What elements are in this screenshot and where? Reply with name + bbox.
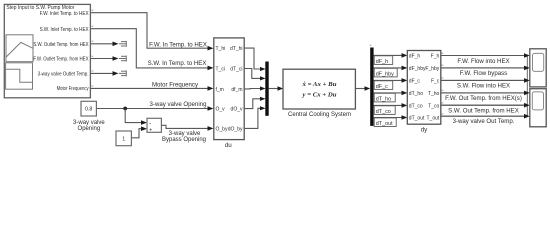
svg-text:dF_c: dF_c [376, 84, 388, 90]
signal label box dF_hby [374, 68, 397, 77]
svg-text:dT_ci: dT_ci [230, 67, 242, 73]
wire: port6 Motor Frequency to du f_m [90, 87, 211, 89]
arrowhead mux port1 [260, 67, 266, 71]
svg-text:dF_h: dF_h [376, 59, 388, 65]
arrowhead scope1 port1 [524, 53, 530, 58]
wire: du df_m to mux port3 [244, 88, 262, 90]
arrowhead into dy port5 [402, 103, 408, 108]
arrowhead into dy port4 [402, 91, 408, 96]
svg-text:T_hi: T_hi [216, 46, 226, 52]
svg-text:F_hby: F_hby [425, 66, 439, 72]
svg-text:≈: ≈ [92, 9, 94, 13]
svg-text:≈: ≈ [92, 84, 94, 88]
signal label box dT_ho [374, 93, 395, 102]
svg-text:dT_co: dT_co [376, 109, 391, 115]
arrowhead into dy port3 [402, 78, 408, 83]
arrowhead terminator 1 [113, 42, 119, 47]
svg-text:dy: dy [421, 126, 428, 133]
wire: port5 to terminator 3 [90, 72, 114, 74]
svg-text:3-way valve Out Temp.: 3-way valve Out Temp. [453, 118, 515, 125]
arrowhead scope2 port3 [524, 114, 530, 119]
arrowhead scope1 port2 [524, 66, 530, 71]
svg-text:≈: ≈ [92, 69, 94, 73]
scope block 1 [530, 49, 546, 87]
svg-text:T_out: T_out [427, 116, 440, 122]
constant block 1 [116, 131, 131, 146]
svg-text:1: 1 [122, 136, 125, 142]
arrowhead into demux [365, 86, 371, 91]
terminator T1 [119, 41, 126, 47]
wire: du dO_by to mux port5 [244, 108, 262, 128]
svg-text:≈: ≈ [442, 51, 444, 55]
arrowhead mux port5 [260, 106, 266, 110]
icon: step signal plot [6, 63, 33, 89]
state-space block: Central Cooling System [283, 69, 355, 109]
terminator T2 [119, 56, 126, 62]
svg-text:F_h: F_h [431, 54, 440, 60]
wire: demux to dy dF_hby [374, 67, 405, 69]
svg-text:T_ci: T_ci [216, 67, 225, 73]
wire: CCS to demux [355, 88, 367, 90]
svg-text:Central Cooling System: Central Cooling System [288, 112, 351, 118]
svg-text:df_m: df_m [231, 87, 242, 93]
svg-text:y = Cx + Du: y = Cx + Du [301, 93, 337, 99]
svg-text:dO_v: dO_v [231, 107, 243, 113]
arrowhead into dy port2 [402, 66, 408, 71]
signal label box dT_out [374, 118, 396, 127]
svg-text:+: + [149, 128, 152, 134]
tiny routing tags [92, 9, 444, 117]
arrowhead into dy port6 [402, 115, 408, 120]
svg-text:dF_c: dF_c [409, 79, 421, 85]
wire: mux to Central Cooling System [268, 88, 280, 90]
output label boxes column [441, 56, 528, 117]
svg-text:F.W. Outlet Temp. from HEX: F.W. Outlet Temp. from HEX [33, 57, 89, 63]
wire: sum to du O_by [161, 125, 211, 128]
svg-text:≈: ≈ [442, 89, 444, 93]
svg-text:≈: ≈ [92, 25, 94, 29]
svg-text:T_co: T_co [428, 104, 439, 110]
svg-text:F.W. Flow into HEX: F.W. Flow into HEX [457, 58, 509, 65]
wire: demux to dy dT_out [374, 117, 405, 119]
svg-text:S.W. In Temp. to HEX: S.W. In Temp. to HEX [148, 60, 207, 67]
wire: dy F_hby to scope1 [441, 67, 527, 69]
svg-text:F.W. In Temp. to HEX: F.W. In Temp. to HEX [149, 41, 207, 48]
signal label box dT_co [374, 106, 395, 115]
mux bar [265, 62, 268, 116]
wire: branch down to sum minus input [125, 109, 143, 123]
svg-text:≈: ≈ [442, 112, 444, 116]
svg-text:≈: ≈ [442, 101, 444, 105]
svg-text:ẋ = Ax + Bu: ẋ = Ax + Bu [301, 82, 337, 88]
arrowhead terminator 3 [113, 71, 119, 76]
svg-text:≈: ≈ [92, 40, 94, 44]
arrowhead into sum minus [141, 120, 147, 125]
wire: port2 to du T_ci [90, 29, 211, 68]
svg-text:dF_hby: dF_hby [376, 71, 394, 77]
terminator T3 [119, 70, 126, 76]
svg-text:0.8: 0.8 [85, 107, 92, 113]
svg-text:T_ho: T_ho [428, 91, 440, 97]
svg-text:F.W. Out Temp. from HEX(s): F.W. Out Temp. from HEX(s) [445, 95, 522, 102]
arrowhead into sum plus [141, 126, 147, 131]
svg-text:f_m: f_m [216, 87, 224, 93]
svg-text:Motor Frequency: Motor Frequency [57, 86, 89, 92]
svg-text:3-way valve Outlet Temp.: 3-way valve Outlet Temp. [38, 72, 89, 78]
block dy (output reconstruction) [407, 51, 441, 125]
svg-text:dT_hi: dT_hi [230, 46, 243, 52]
wire: dy F_h to scope1 [441, 55, 527, 57]
arrowhead into du port2 [208, 66, 214, 71]
wire: du dO_v to mux port4 [244, 99, 262, 109]
svg-text:dT_ho: dT_ho [376, 96, 391, 102]
wire: dy T_co to scope2 [441, 104, 527, 106]
arrowhead into du port3 [208, 86, 214, 91]
svg-text:Motor Frequency: Motor Frequency [152, 82, 199, 89]
svg-text:dT_co: dT_co [409, 104, 423, 110]
wire: port1 to du T_hi [90, 13, 211, 49]
signal label box dF_c [374, 81, 393, 90]
arrowhead scope2 port2 [524, 103, 530, 108]
svg-text:du: du [225, 142, 232, 149]
svg-text:F.W. Inlet Temp. to HEX: F.W. Inlet Temp. to HEX [40, 11, 89, 17]
wire: demux to dy dT_co [374, 104, 405, 106]
arrowhead into du port1 [208, 46, 214, 51]
wire: dy T_out to scope2 [441, 115, 527, 117]
subsystem: Step Input to S.W. Pump Motor [4, 4, 90, 97]
arrowhead scope1 port3 [524, 78, 530, 83]
block du (deviation of inputs) [214, 38, 244, 140]
wire: 1 to sum plus input [132, 129, 144, 138]
sum block [147, 118, 161, 133]
svg-text:S.W. Outlet Temp. from HEX: S.W. Outlet Temp. from HEX [33, 42, 89, 48]
wire: port4 to terminator 2 [90, 58, 114, 60]
svg-text:3-way valve Opening: 3-way valve Opening [150, 101, 207, 108]
wire: demux to dy dT_ho [374, 92, 405, 94]
svg-text:≈: ≈ [92, 54, 94, 58]
arrowhead into du port5 [208, 126, 214, 131]
svg-text:dT_out: dT_out [409, 116, 425, 122]
arrowhead into du port4 [208, 106, 214, 111]
svg-text:Opening: Opening [78, 126, 101, 132]
scope block 2 [530, 89, 546, 127]
demux bar [370, 48, 373, 126]
svg-text:S.W. Flow into HEX: S.W. Flow into HEX [457, 83, 510, 90]
junction node [123, 107, 127, 111]
svg-text:≈: ≈ [442, 64, 444, 68]
arrowhead into dy port1 [402, 53, 408, 58]
arrowhead scope2 port1 [524, 91, 530, 96]
svg-text:dT_out: dT_out [376, 121, 393, 127]
svg-text:dF_hby: dF_hby [409, 66, 426, 72]
svg-text:F.W. Flow bypass: F.W. Flow bypass [460, 70, 507, 77]
wire: du dT_hi to mux port1 [244, 48, 262, 69]
wire: demux to dy dF_h [374, 54, 405, 56]
arrowhead mux port4 [260, 97, 266, 101]
svg-text:S.W. Out Temp. from HEX: S.W. Out Temp. from HEX [448, 108, 519, 115]
signal label box dF_h [374, 56, 393, 65]
wire: demux to dy dF_c [374, 79, 405, 81]
svg-text:dF_h: dF_h [409, 54, 421, 60]
constant block 0.8 [81, 101, 96, 116]
wire: port3 to terminator 1 [90, 43, 114, 45]
wire: du dT_ci to mux port2 [244, 69, 262, 79]
svg-text:F_c: F_c [431, 79, 440, 85]
arrowhead mux port2 [260, 76, 266, 80]
svg-text:O_v: O_v [216, 107, 226, 113]
wire: dy F_c to scope1 [441, 79, 527, 81]
svg-text:dO_by: dO_by [228, 126, 243, 132]
wire: 0.8 to du O_v [96, 108, 211, 110]
svg-text:dT_ho: dT_ho [409, 91, 423, 97]
arrowhead into CCS [278, 86, 284, 91]
svg-text:-: - [149, 121, 151, 127]
icon: ramp signal plot [6, 35, 33, 62]
svg-text:≈: ≈ [442, 76, 444, 80]
arrowhead terminator 2 [113, 56, 119, 61]
svg-text:S.W. Inlet Temp. to HEX: S.W. Inlet Temp. to HEX [40, 27, 89, 33]
svg-text:≈: ≈ [370, 44, 372, 48]
svg-text:Bypass Opening: Bypass Opening [162, 137, 206, 143]
wire: dy T_ho to scope2 [441, 92, 527, 94]
arrowhead mux port3 [260, 86, 266, 90]
svg-text:O_by: O_by [216, 126, 228, 132]
